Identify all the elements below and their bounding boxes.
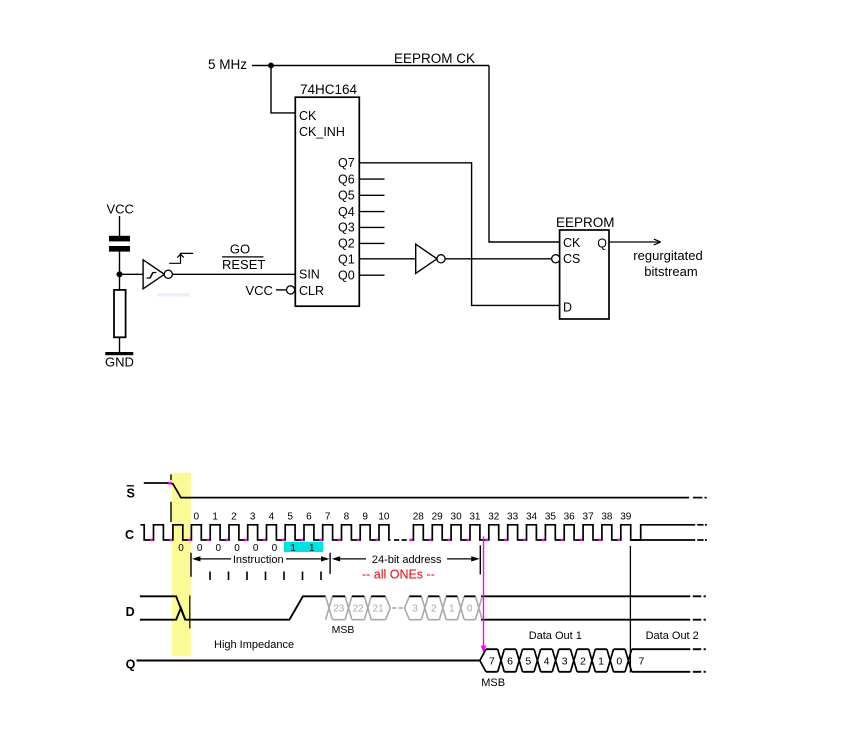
wire Q output bbox=[609, 241, 660, 243]
svg-text:CK: CK bbox=[563, 236, 581, 250]
D waveform left low bbox=[140, 596, 326, 619]
wire VCC to capacitor bbox=[119, 216, 121, 236]
C clock waveform pulses -3..10 bbox=[141, 525, 391, 540]
svg-text:Q2: Q2 bbox=[338, 237, 355, 251]
inverter U3 triangle bbox=[416, 244, 437, 273]
svg-text:39: 39 bbox=[620, 512, 632, 523]
svg-text:0: 0 bbox=[616, 656, 622, 668]
svg-text:3: 3 bbox=[562, 656, 568, 668]
clock edge tick marks bbox=[209, 572, 211, 581]
ground bar bbox=[105, 352, 133, 355]
capacitor C1 plate 2 bbox=[109, 246, 130, 252]
svg-text:-- all ONEs --: -- all ONEs -- bbox=[362, 567, 435, 581]
wire CK down to 74HC164 bbox=[271, 66, 295, 113]
S fall marker tick upper bbox=[170, 474, 172, 480]
svg-text:Q1: Q1 bbox=[338, 253, 355, 267]
svg-text:Data Out 2: Data Out 2 bbox=[646, 630, 699, 642]
svg-text:MSB: MSB bbox=[481, 677, 505, 689]
svg-text:37: 37 bbox=[583, 512, 595, 523]
C bottom continuation bbox=[631, 539, 696, 541]
svg-text:1: 1 bbox=[449, 604, 455, 615]
svg-text:7: 7 bbox=[639, 656, 645, 668]
svg-text:23: 23 bbox=[333, 604, 345, 615]
D top dash bbox=[693, 595, 701, 597]
address span left line bbox=[339, 558, 366, 560]
svg-text:VCC: VCC bbox=[246, 283, 273, 298]
svg-text:22: 22 bbox=[353, 604, 365, 615]
Q rails data out 2 bbox=[632, 649, 691, 672]
address span right arrowhead bbox=[471, 556, 480, 561]
D top dot bbox=[704, 595, 706, 597]
wire node to inverter U4 bbox=[120, 273, 144, 275]
C top dot bbox=[705, 524, 707, 526]
wire U3 out to EEPROM CS bbox=[445, 258, 552, 260]
svg-text:6: 6 bbox=[306, 512, 312, 523]
rising edge arrowhead bbox=[177, 254, 184, 257]
svg-text:Q3: Q3 bbox=[338, 221, 355, 235]
svg-text:1: 1 bbox=[598, 656, 604, 668]
svg-text:regurgitated: regurgitated bbox=[633, 248, 702, 263]
D hexagon gap dash 1 bbox=[392, 607, 396, 609]
svg-text:21: 21 bbox=[373, 604, 385, 615]
D hexagon gap dash 2 bbox=[399, 607, 403, 609]
svg-text:2: 2 bbox=[431, 604, 437, 615]
svg-text:D: D bbox=[563, 301, 572, 315]
svg-text:CLR: CLR bbox=[299, 284, 324, 298]
svg-text:Instruction: Instruction bbox=[233, 554, 284, 566]
svg-text:8: 8 bbox=[344, 512, 350, 523]
arrowhead Q output bbox=[654, 239, 661, 245]
rising edge symbol bbox=[169, 253, 193, 263]
svg-text:9: 9 bbox=[362, 512, 368, 523]
svg-text:bitstream: bitstream bbox=[644, 264, 697, 279]
Q data hexagon rails bbox=[486, 649, 625, 672]
svg-text:0: 0 bbox=[194, 512, 200, 523]
svg-text:5 MHz: 5 MHz bbox=[208, 57, 247, 72]
svg-text:7: 7 bbox=[489, 656, 495, 668]
junction dot 5MHz node bbox=[268, 63, 273, 68]
svg-text:1: 1 bbox=[212, 512, 218, 523]
instruction span right arrowhead bbox=[321, 556, 330, 561]
instruction span left arrowhead bbox=[192, 556, 201, 561]
svg-text:30: 30 bbox=[451, 512, 463, 523]
svg-text:EEPROM: EEPROM bbox=[556, 215, 615, 230]
svg-text:0: 0 bbox=[216, 543, 222, 554]
D address hexagon tops bbox=[332, 595, 475, 597]
pin CS bubble (U2) bbox=[552, 255, 560, 263]
shift register U1 74HC164 body bbox=[295, 97, 359, 306]
S continuation dot bbox=[705, 497, 707, 499]
C gap dash 1 bbox=[394, 539, 399, 541]
yellow highlight band bbox=[172, 473, 191, 657]
C gap dash 2 bbox=[402, 539, 407, 541]
inverter U4 Schmitt triangle bbox=[143, 260, 164, 289]
svg-text:EEPROM CK: EEPROM CK bbox=[394, 51, 475, 66]
wire Q1 to inverter U3 bbox=[359, 258, 415, 260]
svg-text:5: 5 bbox=[287, 512, 293, 523]
magenta dot S fall bbox=[168, 482, 171, 485]
svg-text:36: 36 bbox=[564, 512, 576, 523]
wire resistor to ground bbox=[119, 337, 121, 352]
D bottom dash bbox=[693, 619, 701, 621]
svg-text:33: 33 bbox=[507, 512, 519, 523]
svg-text:0: 0 bbox=[272, 543, 278, 554]
svg-text:7: 7 bbox=[325, 512, 331, 523]
svg-text:4: 4 bbox=[544, 656, 550, 668]
svg-text:29: 29 bbox=[432, 512, 444, 523]
pin stub Q5 bbox=[359, 194, 384, 196]
artifact faint blue smudge bbox=[157, 293, 190, 297]
svg-text:RESET: RESET bbox=[222, 257, 265, 272]
svg-text:0: 0 bbox=[197, 543, 203, 554]
D address hexagon bottoms bbox=[332, 619, 475, 621]
wire EEPROM CK down to EEPROM bbox=[489, 66, 560, 243]
svg-text:SIN: SIN bbox=[299, 268, 320, 282]
svg-text:0: 0 bbox=[178, 543, 184, 554]
svg-text:Q0: Q0 bbox=[338, 269, 355, 283]
svg-text:CK_INH: CK_INH bbox=[299, 125, 345, 139]
S waveform bbox=[144, 483, 689, 498]
svg-text:CK: CK bbox=[299, 109, 317, 123]
byte separator line bbox=[629, 546, 631, 673]
svg-text:24-bit address: 24-bit address bbox=[372, 554, 442, 566]
EEPROM U2 body bbox=[560, 230, 609, 319]
C top dash bbox=[697, 524, 703, 526]
svg-text:Q7: Q7 bbox=[338, 156, 355, 170]
svg-text:4: 4 bbox=[269, 512, 275, 523]
Q low line bbox=[137, 660, 480, 662]
wire U4 out to SIN bbox=[172, 273, 295, 275]
svg-text:C: C bbox=[125, 528, 134, 542]
svg-text:1: 1 bbox=[309, 543, 315, 554]
C bottom dash bbox=[697, 539, 703, 541]
svg-text:Q: Q bbox=[126, 657, 136, 671]
wire capacitor to resistor bbox=[119, 252, 121, 290]
svg-text:3: 3 bbox=[412, 604, 418, 615]
pin stub Q3 bbox=[359, 226, 384, 228]
svg-text:31: 31 bbox=[469, 512, 481, 523]
instruction span right line bbox=[286, 558, 322, 560]
cyan highlight bits bbox=[284, 542, 324, 552]
inverter U3 bubble bbox=[437, 255, 445, 263]
magenta cursor line bbox=[483, 536, 485, 646]
S continuation dash bbox=[693, 497, 702, 499]
address span right bar bbox=[479, 545, 481, 574]
C bottom dot bbox=[705, 539, 707, 541]
svg-text:0: 0 bbox=[253, 543, 259, 554]
Q data hexagon crossings bbox=[480, 649, 632, 672]
svg-text:S: S bbox=[127, 486, 135, 500]
Q bottom dash bbox=[693, 671, 701, 673]
junction dot RC node bbox=[117, 272, 123, 278]
svg-text:Q: Q bbox=[597, 237, 607, 251]
pin stub Q6 bbox=[359, 178, 384, 180]
svg-text:Q4: Q4 bbox=[338, 205, 355, 219]
svg-text:MSB: MSB bbox=[332, 624, 355, 636]
S fall marker tick lower bbox=[170, 502, 172, 522]
D bottom dot bbox=[704, 619, 706, 621]
svg-text:74HC164: 74HC164 bbox=[300, 82, 358, 97]
svg-text:0: 0 bbox=[467, 604, 473, 615]
svg-text:Q6: Q6 bbox=[338, 172, 355, 186]
svg-text:CS: CS bbox=[563, 252, 580, 266]
svg-text:3: 3 bbox=[250, 512, 256, 523]
instruction span left bar bbox=[190, 553, 192, 577]
svg-text:6: 6 bbox=[507, 656, 513, 668]
hysteresis glyph U4 bbox=[147, 273, 157, 279]
pin stub Q4 bbox=[359, 211, 384, 213]
pin stub Q2 bbox=[359, 242, 384, 244]
magenta clock sample dots bbox=[150, 539, 153, 542]
svg-text:GND: GND bbox=[105, 354, 134, 369]
D rails after address bbox=[481, 596, 690, 619]
wire Q7 to EEPROM D bbox=[359, 163, 559, 306]
wire 5MHz clock net bbox=[252, 65, 489, 67]
wire VCC to CLR bubble bbox=[276, 289, 287, 291]
overline RESET bbox=[222, 256, 264, 258]
svg-text:2: 2 bbox=[231, 512, 237, 523]
Q bottom dot bbox=[704, 671, 706, 673]
D transition marker tick bbox=[189, 595, 191, 628]
svg-text:VCC: VCC bbox=[107, 202, 134, 217]
magenta cursor arrowhead bbox=[481, 646, 487, 653]
svg-text:38: 38 bbox=[601, 512, 613, 523]
signal label S overline bbox=[127, 485, 134, 487]
address span right line bbox=[447, 558, 472, 560]
svg-text:0: 0 bbox=[234, 543, 240, 554]
capacitor C1 plate 1 bbox=[109, 236, 130, 242]
C clock waveform pulses 28..39 bbox=[410, 525, 696, 540]
svg-text:35: 35 bbox=[545, 512, 557, 523]
instruction span right bar bbox=[329, 553, 331, 574]
resistor R1 bbox=[114, 290, 126, 337]
svg-text:1: 1 bbox=[290, 543, 296, 554]
svg-text:2: 2 bbox=[580, 656, 586, 668]
svg-text:32: 32 bbox=[488, 512, 500, 523]
Q top dash bbox=[693, 648, 701, 650]
svg-text:Data Out 1: Data Out 1 bbox=[529, 630, 582, 642]
svg-text:High Impedance: High Impedance bbox=[214, 639, 294, 651]
svg-text:10: 10 bbox=[378, 512, 390, 523]
svg-text:Q5: Q5 bbox=[338, 189, 355, 203]
svg-text:5: 5 bbox=[525, 656, 531, 668]
inverter U4 bubble bbox=[164, 270, 172, 278]
Q top dot bbox=[704, 648, 706, 650]
svg-text:GO: GO bbox=[230, 242, 250, 257]
D address hexagon crossings bbox=[326, 596, 483, 619]
instruction span left line bbox=[199, 558, 231, 560]
D waveform left high bbox=[140, 596, 185, 619]
address span left arrowhead bbox=[332, 556, 341, 561]
svg-text:28: 28 bbox=[413, 512, 425, 523]
svg-text:34: 34 bbox=[526, 512, 538, 523]
pin CLR bubble bbox=[287, 286, 295, 294]
pin stub Q0 bbox=[359, 274, 384, 276]
svg-text:D: D bbox=[126, 605, 135, 619]
